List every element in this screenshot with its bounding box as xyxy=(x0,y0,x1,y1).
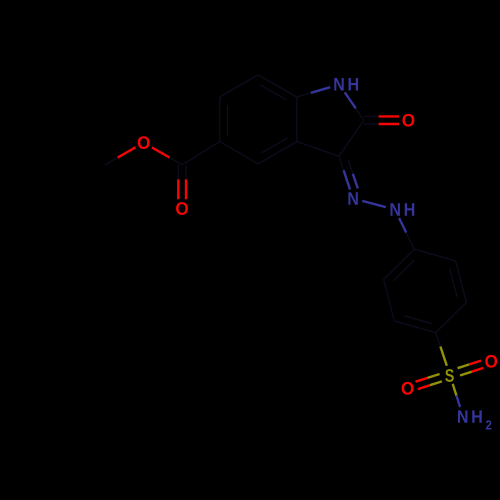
bond Cc=O2 ester carbonyl double xyxy=(185,165,187,180)
bond C1p-C2p xyxy=(414,249,455,261)
bond C6-C7 xyxy=(220,75,259,97)
bond C7=C7a aromatic xyxy=(258,75,297,97)
atom O ester carbonyl xyxy=(176,202,188,215)
atom O sulfonyl right xyxy=(485,355,497,368)
bond N1-C2 xyxy=(345,92,356,108)
bond S=O4 double xyxy=(430,381,442,385)
bond N2-N3 xyxy=(362,201,386,207)
atom O lactam xyxy=(402,114,414,127)
bond C2-C3 xyxy=(339,120,364,156)
bond O1-Cc ester O to carbonyl C xyxy=(152,147,170,157)
bond C4p-S xyxy=(436,333,441,347)
bond C7a-C3a ring fusion xyxy=(296,97,298,142)
atom N1 indole NH xyxy=(334,78,343,90)
atom N hydrazone xyxy=(348,192,357,204)
bond C6p=C1p aromatic xyxy=(384,249,415,279)
bond Cc-C5 xyxy=(182,142,220,165)
atom N3 anilino NH xyxy=(390,203,399,215)
bond S=O5 double xyxy=(458,364,470,368)
bond C7a-N1 xyxy=(297,93,311,97)
bond C4-C5 xyxy=(220,142,259,164)
bond C5=C6 aromatic xyxy=(219,97,221,142)
bond C2p=C3p aromatic xyxy=(456,261,467,303)
bond N3-C1p xyxy=(399,218,406,233)
bond C5p-C6p xyxy=(384,279,395,321)
atom S sulfonyl xyxy=(445,369,454,382)
atom O sulfonyl left xyxy=(402,382,414,395)
bond C3=N2 hydrazone double xyxy=(339,156,344,170)
bond C3-C3a xyxy=(297,142,339,157)
atom O ester xyxy=(138,136,150,149)
bond C3p-C4p xyxy=(436,303,467,333)
bond S-N4 xyxy=(453,384,457,396)
atom N4 sulfonamide NH2 xyxy=(458,410,467,422)
bond C4p=C5p aromatic xyxy=(394,321,435,333)
bond C2=O3 lactam carbonyl double xyxy=(364,115,379,117)
bond C3a=C4 aromatic xyxy=(258,142,297,164)
bond O1-CH3 methyl ester xyxy=(118,147,136,157)
